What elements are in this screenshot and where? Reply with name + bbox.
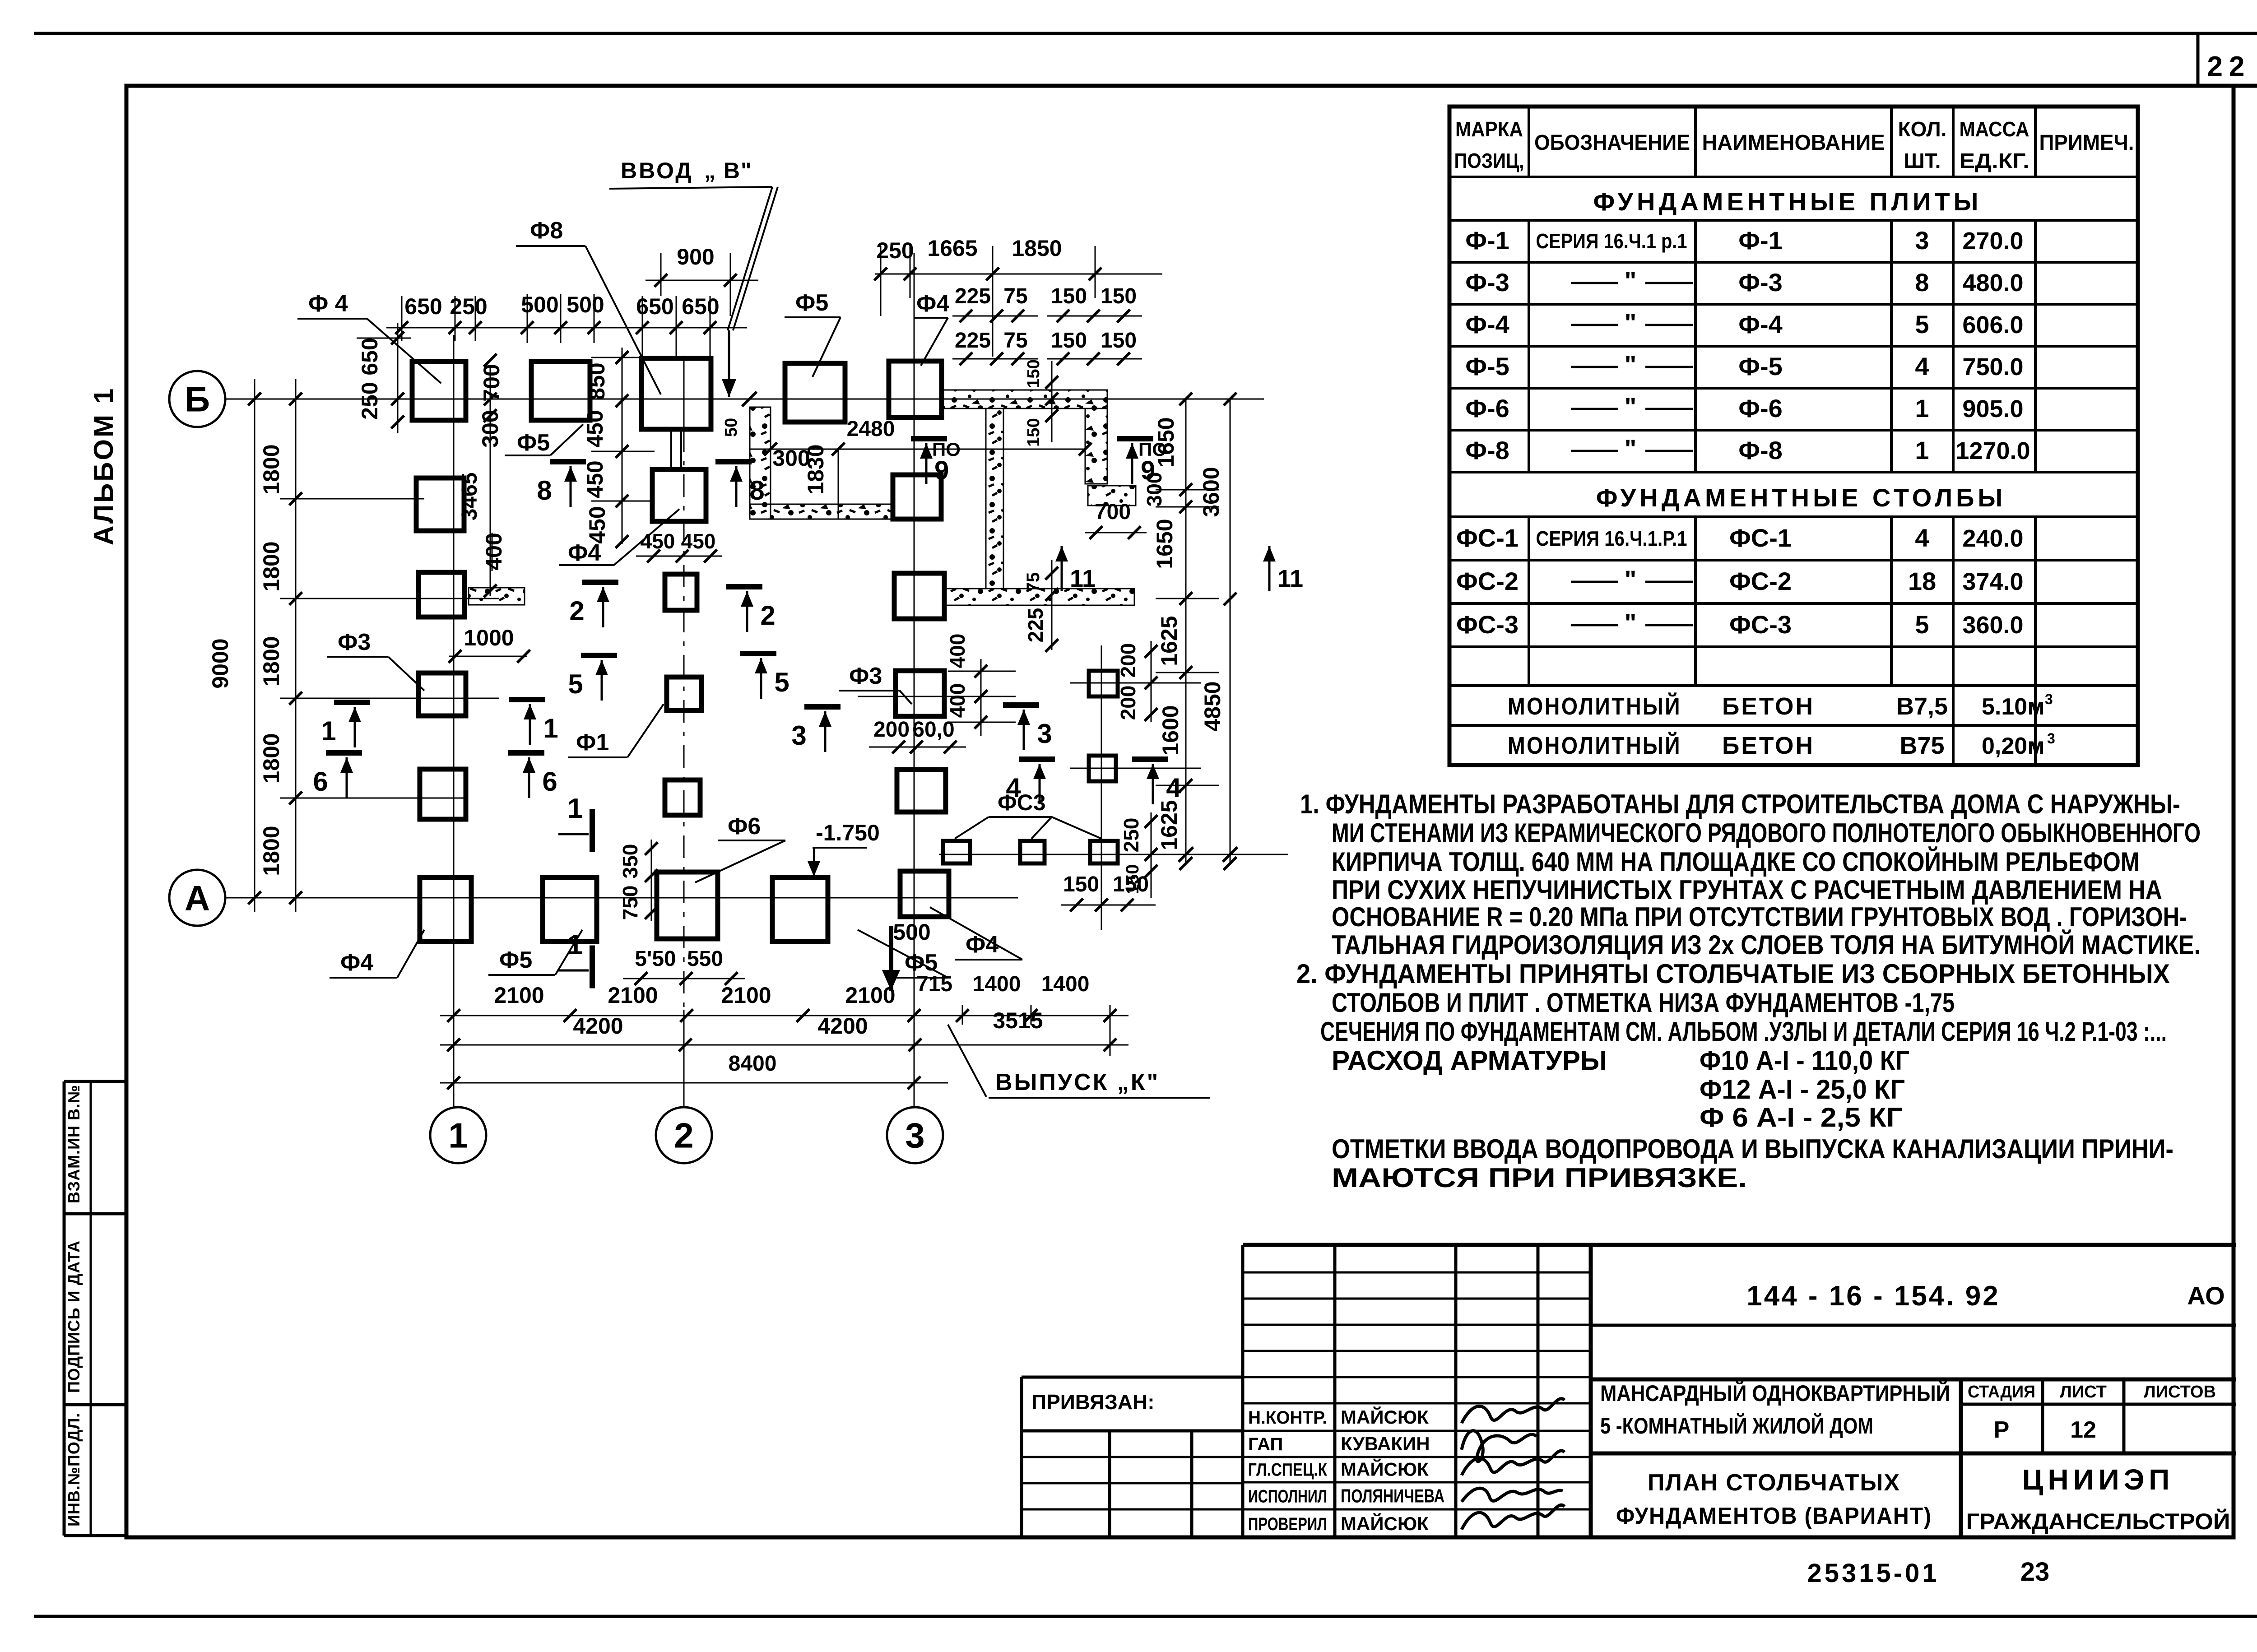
svg-text:МАНСАРДНЫЙ ОДНОКВАРТИРНЫЙ: МАНСАРДНЫЙ ОДНОКВАРТИРНЫЙ [1600,1380,1950,1406]
svg-text:450: 450 [582,460,608,498]
svg-text:240.0: 240.0 [1962,525,2023,552]
svg-text:В75: В75 [1899,732,1944,759]
svg-text:150: 150 [1063,872,1099,896]
svg-text:75: 75 [1023,572,1043,593]
svg-text:МОНОЛИТНЫЙ: МОНОЛИТНЫЙ [1508,692,1681,720]
svg-text:150: 150 [1123,864,1142,895]
svg-text:650: 650 [682,294,719,319]
svg-text:": " [1625,308,1637,337]
svg-text:1625: 1625 [1156,800,1182,850]
svg-text:8: 8 [1915,268,1929,297]
svg-text:905.0: 905.0 [1962,395,2023,422]
svg-text:Ф-3: Ф-3 [1465,268,1509,297]
svg-text:": " [1625,266,1637,295]
svg-text:150: 150 [1101,284,1137,308]
svg-text:4200: 4200 [817,1013,868,1039]
svg-text:8: 8 [537,475,552,506]
svg-text:Ф5: Ф5 [517,430,550,456]
svg-text:5 -КОМНАТНЫЙ ЖИЛОЙ ДОМ: 5 -КОМНАТНЫЙ ЖИЛОЙ ДОМ [1600,1413,1873,1439]
svg-text:Н.КОНТР.: Н.КОНТР. [1248,1408,1327,1428]
svg-text:60,0: 60,0 [912,718,954,742]
svg-text:450: 450 [582,410,608,447]
svg-text:СЕРИЯ 16.Ч.1 р.1: СЕРИЯ 16.Ч.1 р.1 [1536,229,1687,253]
svg-text:ОТМЕТКИ ВВОДА ВОДОПРОВОДА: ОТМЕТКИ ВВОДА ВОДОПРОВОДА И ВЫПУСКА КАНА… [1332,1134,2173,1164]
svg-text:1000: 1000 [464,625,514,650]
svg-text:1400: 1400 [1041,972,1090,996]
svg-text:ОСНОВАНИЕ R = 0.20 МПа ПРИ: ОСНОВАНИЕ R = 0.20 МПа ПРИ ОТСУТСТВИИ ГР… [1332,902,2187,932]
svg-text:Ф-6: Ф-6 [1465,394,1509,422]
svg-text:ШТ.: ШТ. [1904,149,1941,172]
svg-text:2: 2 [760,600,775,631]
svg-text:1. ФУНДАМЕНТЫ РАЗРАБОТАНЫ ДЛ: 1. ФУНДАМЕНТЫ РАЗРАБОТАНЫ ДЛЯ СТРОИТЕЛЬС… [1300,789,2180,819]
svg-text:4: 4 [1915,352,1929,381]
svg-text:ГАП: ГАП [1248,1434,1283,1454]
svg-text:1665: 1665 [927,236,977,261]
svg-text:Ф-5: Ф-5 [1465,352,1509,381]
svg-text:Ф-4: Ф-4 [1738,310,1783,339]
svg-text:КОЛ.: КОЛ. [1898,117,1947,141]
svg-text:Р: Р [1994,1417,2010,1443]
svg-text:6: 6 [313,766,328,797]
svg-text:200: 200 [1116,643,1140,678]
svg-text:": " [1625,392,1637,421]
svg-text:1800: 1800 [259,733,284,783]
svg-text:3600: 3600 [1198,467,1224,517]
svg-text:ЛИСТ: ЛИСТ [2060,1383,2107,1401]
svg-text:Ф6: Ф6 [728,813,761,840]
svg-text:Ф-8: Ф-8 [1465,436,1509,464]
svg-text:200: 200 [873,718,910,742]
svg-text:ПОДПИСЬ И ДАТА: ПОДПИСЬ И ДАТА [65,1240,83,1393]
svg-text:250: 250 [357,382,382,419]
svg-text:75: 75 [1003,329,1027,353]
svg-text:СТАДИЯ: СТАДИЯ [1968,1383,2035,1401]
svg-text:МАРКА: МАРКА [1455,117,1523,141]
svg-text:А: А [185,878,210,918]
svg-text:1830: 1830 [803,444,828,494]
svg-text:ВЗАМ.ИН В.№: ВЗАМ.ИН В.№ [65,1085,83,1203]
svg-text:НАИМЕНОВАНИЕ: НАИМЕНОВАНИЕ [1702,131,1885,155]
svg-text:606.0: 606.0 [1962,311,2023,339]
svg-text:1: 1 [543,713,558,743]
svg-text:3: 3 [2045,691,2053,707]
svg-text:Б: Б [185,379,210,419]
svg-text:650: 650 [404,294,442,319]
svg-text:КИРПИЧА ТОЛЩ. 640 ММ НА ПЛО: КИРПИЧА ТОЛЩ. 640 ММ НА ПЛОЩАДКЕ СО СПОК… [1332,847,2140,877]
svg-text:1650: 1650 [1153,417,1179,467]
svg-text:700: 700 [479,364,504,401]
svg-text:500: 500 [893,919,930,945]
svg-text:23: 23 [2020,1557,2050,1587]
svg-text:250: 250 [876,238,914,263]
svg-text:270.0: 270.0 [1962,227,2023,255]
svg-text:Ф 6 А-I - 2,5 КГ: Ф 6 А-I - 2,5 КГ [1700,1102,1903,1132]
svg-text:ГРАЖДАНСЕЛЬСТРОЙ: ГРАЖДАНСЕЛЬСТРОЙ [1966,1508,2230,1534]
svg-text:50: 50 [722,418,741,437]
svg-text:ПРИВЯЗАН:: ПРИВЯЗАН: [1031,1390,1155,1414]
svg-text:150: 150 [1024,359,1043,388]
svg-text:МОНОЛИТНЫЙ: МОНОЛИТНЫЙ [1508,732,1681,759]
svg-text:150: 150 [1051,284,1087,308]
svg-text:450: 450 [681,529,716,553]
svg-text:": " [1625,350,1637,379]
svg-text:6: 6 [542,766,557,797]
svg-text:Ф5: Ф5 [499,947,532,973]
svg-text:225: 225 [955,284,991,308]
svg-text:8400: 8400 [729,1052,777,1076]
svg-text:2100: 2100 [494,983,544,1008]
svg-text:СЕЧЕНИЯ ПО ФУНДАМЕНТАМ СМ. А: СЕЧЕНИЯ ПО ФУНДАМЕНТАМ СМ. АЛЬБОМ .УЗЛЫ … [1320,1016,2167,1047]
svg-text:БЕТОН: БЕТОН [1722,732,1815,759]
svg-text:3: 3 [905,1115,924,1155]
svg-text:Ф5: Ф5 [795,290,828,316]
svg-text:25315-01: 25315-01 [1807,1559,1939,1588]
svg-text:12: 12 [2070,1417,2096,1443]
svg-text:КУВАКИН: КУВАКИН [1341,1433,1430,1454]
svg-text:В7,5: В7,5 [1896,693,1948,720]
svg-text:ИНВ.№ПОДЛ.: ИНВ.№ПОДЛ. [65,1413,83,1527]
svg-text:ГЛ.СПЕЦ.К: ГЛ.СПЕЦ.К [1248,1460,1327,1480]
svg-text:4: 4 [1166,773,1181,803]
svg-text:Ф-6: Ф-6 [1738,394,1783,422]
svg-text:ФУНДАМЕНТНЫЕ ПЛИТЫ: ФУНДАМЕНТНЫЕ ПЛИТЫ [1593,187,1982,216]
svg-text:500: 500 [567,292,604,317]
svg-text:ТАЛЬНАЯ ГИДРОИЗОЛЯЦИЯ ИЗ 2: ТАЛЬНАЯ ГИДРОИЗОЛЯЦИЯ ИЗ 2х СЛОЕВ ТОЛЯ Н… [1332,930,2201,960]
svg-text:3465: 3465 [458,473,482,521]
svg-text:1800: 1800 [259,826,284,876]
svg-text:1: 1 [567,793,583,824]
svg-text:480.0: 480.0 [1962,269,2023,297]
svg-text:1400: 1400 [973,972,1021,996]
svg-text:3: 3 [791,720,806,751]
svg-text:22: 22 [2207,51,2251,82]
svg-text:2480: 2480 [847,417,895,441]
svg-text:Ф3: Ф3 [849,663,882,689]
svg-text:ЛИСТОВ: ЛИСТОВ [2144,1383,2216,1401]
svg-text:МАССА: МАССА [1960,117,2029,141]
svg-text:5: 5 [568,669,583,699]
svg-text:ПЛАН СТОЛБЧАТЫХ: ПЛАН СТОЛБЧАТЫХ [1648,1470,1900,1496]
svg-text:ФУНДАМЕНТНЫЕ СТОЛБЫ: ФУНДАМЕНТНЫЕ СТОЛБЫ [1596,483,2006,512]
svg-text:1270.0: 1270.0 [1955,437,2030,464]
svg-text:750.0: 750.0 [1962,353,2023,381]
svg-text:250: 250 [1119,818,1143,853]
svg-text:3: 3 [2047,730,2055,747]
svg-text:Ф-8: Ф-8 [1738,436,1783,464]
svg-text:3: 3 [1915,226,1929,255]
svg-text:400: 400 [481,533,506,570]
svg-text:5.10м: 5.10м [1982,694,2045,720]
svg-text:11: 11 [1070,565,1096,592]
svg-text:5: 5 [1915,610,1929,639]
svg-text:1800: 1800 [259,636,284,686]
svg-text:2100: 2100 [721,983,771,1008]
svg-text:ЦНИИЭП: ЦНИИЭП [2022,1463,2174,1496]
svg-text:150: 150 [1101,329,1137,353]
svg-text:ПРИ СУХИХ НЕПУЧИНИСТЫХ ГРУНТ: ПРИ СУХИХ НЕПУЧИНИСТЫХ ГРУНТАХ С РАСЧЕТН… [1332,875,2162,905]
svg-text:АЛЬБОМ 1: АЛЬБОМ 1 [88,387,119,545]
svg-text:1: 1 [567,929,583,961]
svg-text:МАЮТСЯ ПРИ ПРИВЯЗКЕ.: МАЮТСЯ ПРИ ПРИВЯЗКЕ. [1332,1163,1747,1193]
svg-text:Ф-1: Ф-1 [1738,226,1783,255]
svg-text:400: 400 [946,683,969,718]
svg-text:1625: 1625 [1156,616,1182,666]
svg-text:11: 11 [1277,565,1303,592]
svg-text:1: 1 [1915,436,1929,464]
svg-text:Ф3: Ф3 [338,629,371,655]
svg-text:Ф 4: Ф 4 [308,291,348,317]
svg-text:ПРИМЕЧ.: ПРИМЕЧ. [2039,131,2134,155]
svg-text:ПРОВЕРИЛ: ПРОВЕРИЛ [1248,1514,1327,1534]
svg-text:4: 4 [1915,524,1929,552]
svg-text:ФС-3: ФС-3 [1456,610,1519,639]
svg-text:СЕРИЯ 16.Ч.1.Р.1: СЕРИЯ 16.Ч.1.Р.1 [1536,527,1687,550]
svg-text:Ф8: Ф8 [530,218,563,244]
svg-text:1850: 1850 [1012,236,1062,261]
svg-text:200: 200 [1116,686,1140,720]
svg-text:374.0: 374.0 [1962,568,2023,595]
svg-text:1800: 1800 [259,444,284,494]
svg-text:2100: 2100 [845,983,895,1008]
svg-text:75: 75 [1003,284,1027,308]
svg-text:1: 1 [321,716,336,746]
svg-text:650: 650 [357,338,382,375]
svg-text:550: 550 [687,947,723,971]
svg-text:0,20м: 0,20м [1982,733,2045,759]
svg-text:700: 700 [1095,500,1131,524]
svg-text:МАЙСЮК: МАЙСЮК [1341,1406,1429,1428]
svg-text:715: 715 [916,972,952,996]
svg-text:Ф4: Ф4 [568,540,601,566]
svg-text:ВВОД: ВВОД [621,158,693,183]
svg-text:СТОЛБОВ И ПЛИТ . ОТМЕТКА: СТОЛБОВ И ПЛИТ . ОТМЕТКА НИЗА ФУНДАМЕНТО… [1332,988,1955,1018]
svg-text:Ф4: Ф4 [340,950,373,976]
svg-text:300: 300 [478,410,503,447]
svg-text:150: 150 [1051,329,1087,353]
svg-text:450: 450 [585,506,610,543]
svg-text:ВЫПУСК „К": ВЫПУСК „К" [995,1069,1160,1095]
svg-text:5: 5 [774,667,789,697]
svg-text:9000: 9000 [208,638,233,688]
svg-text:ФУНДАМЕНТОВ (ВАРИАНТ): ФУНДАМЕНТОВ (ВАРИАНТ) [1616,1503,1932,1529]
svg-text:БЕТОН: БЕТОН [1722,693,1815,720]
svg-text:8: 8 [749,475,764,506]
svg-text:Ф12 А-I - 25,0 КГ: Ф12 А-I - 25,0 КГ [1700,1074,1905,1104]
svg-text:144 - 16 - 154. 92: 144 - 16 - 154. 92 [1746,1281,2000,1312]
svg-text:ЕД.КГ.: ЕД.КГ. [1960,149,2029,172]
svg-text:„ В": „ В" [704,158,752,183]
svg-text:Ф4: Ф4 [966,932,998,958]
svg-text:-1.750: -1.750 [816,820,880,845]
svg-text:4850: 4850 [1200,681,1225,731]
svg-text:3: 3 [1037,719,1052,749]
svg-text:225: 225 [1024,608,1047,643]
svg-text:Ф-4: Ф-4 [1465,310,1509,339]
svg-text:ИСПОЛНИЛ: ИСПОЛНИЛ [1248,1486,1327,1506]
svg-text:ФС-2: ФС-2 [1456,567,1519,595]
svg-text:750: 750 [618,886,642,920]
svg-text:4200: 4200 [573,1013,623,1039]
svg-text:ФС-3: ФС-3 [1729,610,1792,639]
svg-text:450: 450 [641,529,675,553]
svg-text:Ф10 А-I - 110,0 КГ: Ф10 А-I - 110,0 КГ [1700,1045,1909,1076]
svg-text:ФС-1: ФС-1 [1456,524,1519,552]
svg-text:1: 1 [448,1115,468,1155]
svg-text:Ф-1: Ф-1 [1465,226,1509,255]
svg-text:2. ФУНДАМЕНТЫ ПРИНЯТЫ СТОЛБ: 2. ФУНДАМЕНТЫ ПРИНЯТЫ СТОЛБЧАТЫЕ ИЗ СБОР… [1296,959,2170,989]
svg-text:1: 1 [1915,394,1929,422]
svg-text:ОБОЗНАЧЕНИЕ: ОБОЗНАЧЕНИЕ [1534,131,1690,155]
svg-text:150: 150 [1024,418,1043,446]
svg-text:18: 18 [1908,567,1936,595]
svg-text:РАСХОД АРМАТУРЫ: РАСХОД АРМАТУРЫ [1332,1045,1607,1076]
svg-text:5: 5 [1915,310,1929,339]
svg-text:4: 4 [1006,773,1021,803]
svg-text:1650: 1650 [1152,519,1177,569]
svg-text:2: 2 [569,596,584,626]
svg-text:350: 350 [618,844,642,879]
svg-text:МИ СТЕНАМИ ИЗ КЕРАМИЧЕСКОГО РЯ: МИ СТЕНАМИ ИЗ КЕРАМИЧЕСКОГО РЯДОВОГО ПОЛ… [1332,818,2201,848]
svg-text:850: 850 [584,362,609,400]
svg-text:400: 400 [946,634,969,668]
svg-text:": " [1625,565,1637,594]
svg-text:": " [1625,608,1637,637]
svg-text:3515: 3515 [993,1008,1043,1033]
svg-text:1800: 1800 [259,541,284,591]
svg-text:АО: АО [2187,1281,2224,1310]
svg-text:900: 900 [677,244,714,269]
svg-text:1600: 1600 [1158,705,1183,755]
svg-text:5'50: 5'50 [635,947,676,971]
svg-text:Ф1: Ф1 [576,729,609,756]
svg-text:": " [1625,434,1637,463]
svg-text:ПОЛЯНИЧЕВА: ПОЛЯНИЧЕВА [1341,1485,1444,1506]
svg-text:9: 9 [934,456,949,485]
svg-text:2100: 2100 [608,983,658,1008]
svg-text:Ф4: Ф4 [916,291,949,317]
svg-text:МАЙСЮК: МАЙСЮК [1341,1458,1429,1480]
svg-text:360.0: 360.0 [1962,612,2023,639]
svg-text:2: 2 [674,1115,693,1155]
svg-text:МАЙСЮК: МАЙСЮК [1341,1513,1429,1534]
svg-text:ФС-2: ФС-2 [1729,567,1792,595]
svg-text:ПОЗИЦ,: ПОЗИЦ, [1454,149,1524,172]
svg-text:225: 225 [955,329,991,353]
svg-text:Ф-3: Ф-3 [1738,268,1783,297]
svg-text:Ф-5: Ф-5 [1738,352,1783,381]
svg-text:ФС-1: ФС-1 [1729,524,1792,552]
